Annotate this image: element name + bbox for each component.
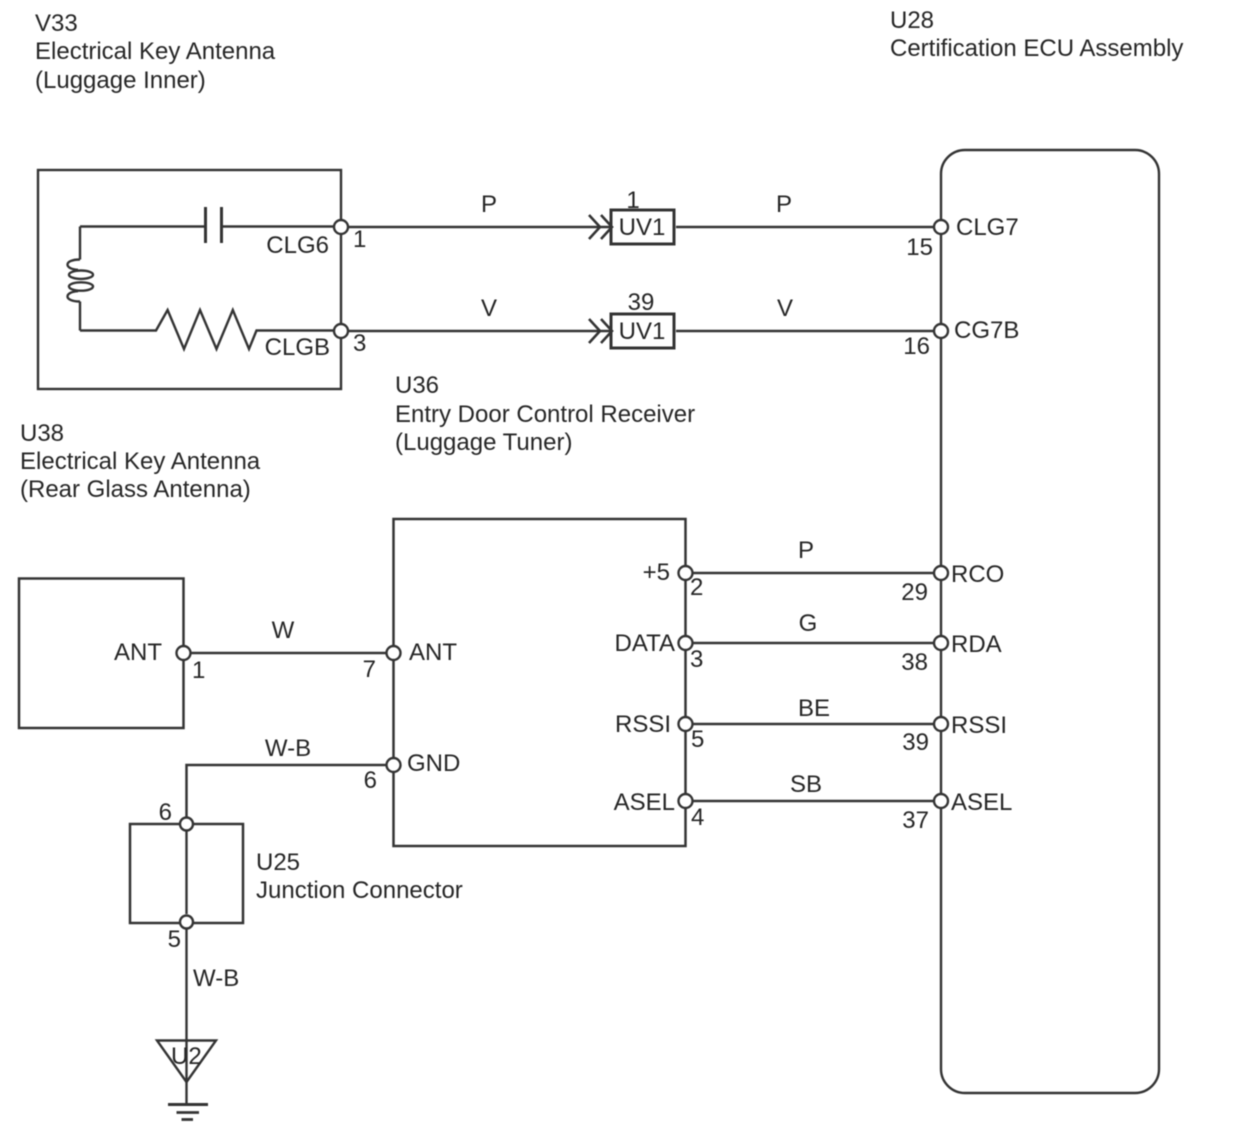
- svg-text:2: 2: [690, 574, 703, 601]
- svg-text:5: 5: [168, 926, 181, 953]
- svg-text:(Rear Glass Antenna): (Rear Glass Antenna): [20, 476, 251, 503]
- svg-text:16: 16: [903, 333, 930, 360]
- svg-text:Electrical Key Antenna: Electrical Key Antenna: [20, 448, 261, 475]
- svg-text:6: 6: [364, 767, 377, 794]
- svg-text:SB: SB: [790, 771, 822, 798]
- svg-text:P: P: [776, 191, 792, 218]
- svg-text:1: 1: [626, 187, 639, 214]
- svg-text:(Luggage Inner): (Luggage Inner): [35, 67, 206, 94]
- svg-text:1: 1: [192, 657, 205, 684]
- svg-text:ANT: ANT: [114, 639, 162, 666]
- svg-text:3: 3: [690, 646, 703, 673]
- svg-text:39: 39: [628, 289, 655, 316]
- svg-text:29: 29: [901, 579, 928, 606]
- svg-text:+5: +5: [643, 559, 670, 586]
- svg-text:4: 4: [691, 804, 704, 831]
- svg-text:DATA: DATA: [615, 630, 675, 657]
- svg-text:RCO: RCO: [951, 561, 1004, 588]
- svg-text:15: 15: [906, 234, 933, 261]
- svg-text:37: 37: [902, 807, 929, 834]
- svg-text:P: P: [481, 191, 497, 218]
- svg-text:BE: BE: [798, 695, 830, 722]
- svg-text:W: W: [272, 617, 295, 644]
- svg-text:U25: U25: [256, 849, 300, 876]
- svg-text:CG7B: CG7B: [954, 317, 1019, 344]
- svg-text:W-B: W-B: [265, 735, 311, 762]
- svg-text:ASEL: ASEL: [951, 789, 1012, 816]
- svg-text:3: 3: [353, 330, 366, 357]
- svg-text:CLG6: CLG6: [266, 232, 329, 259]
- svg-text:G: G: [799, 610, 818, 637]
- svg-text:V: V: [777, 295, 793, 322]
- svg-text:U38: U38: [20, 420, 64, 447]
- svg-text:6: 6: [159, 799, 172, 826]
- svg-text:W-B: W-B: [193, 965, 239, 992]
- svg-text:5: 5: [691, 726, 704, 753]
- svg-text:Electrical Key Antenna: Electrical Key Antenna: [35, 38, 276, 65]
- svg-text:V: V: [481, 295, 497, 322]
- svg-text:Junction Connector: Junction Connector: [256, 877, 463, 904]
- svg-text:CLGB: CLGB: [265, 334, 330, 361]
- svg-text:ANT: ANT: [409, 639, 457, 666]
- svg-text:(Luggage Tuner): (Luggage Tuner): [395, 429, 572, 456]
- svg-text:Entry Door Control Receiver: Entry Door Control Receiver: [395, 401, 695, 428]
- svg-text:GND: GND: [407, 750, 460, 777]
- svg-text:P: P: [798, 537, 814, 564]
- svg-text:1: 1: [353, 226, 366, 253]
- svg-text:U28: U28: [890, 7, 934, 34]
- svg-text:CLG7: CLG7: [956, 214, 1019, 241]
- svg-text:ASEL: ASEL: [614, 789, 675, 816]
- svg-text:RDA: RDA: [951, 631, 1002, 658]
- svg-text:UV1: UV1: [619, 318, 666, 345]
- svg-text:U36: U36: [395, 372, 439, 399]
- svg-text:RSSI: RSSI: [951, 712, 1007, 739]
- svg-text:V33: V33: [35, 10, 78, 37]
- svg-text:7: 7: [363, 656, 376, 683]
- svg-text:U2: U2: [171, 1043, 202, 1070]
- svg-text:RSSI: RSSI: [615, 711, 671, 738]
- svg-text:38: 38: [901, 649, 928, 676]
- svg-text:UV1: UV1: [619, 214, 666, 241]
- svg-text:Certification ECU Assembly: Certification ECU Assembly: [890, 35, 1183, 62]
- svg-text:39: 39: [902, 729, 929, 756]
